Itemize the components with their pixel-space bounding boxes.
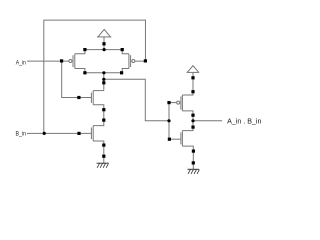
svg-text:A_in . B_in: A_in . B_in <box>227 118 261 125</box>
svg-text:B_in: B_in <box>16 131 27 138</box>
svg-text:A_in: A_in <box>16 59 27 66</box>
